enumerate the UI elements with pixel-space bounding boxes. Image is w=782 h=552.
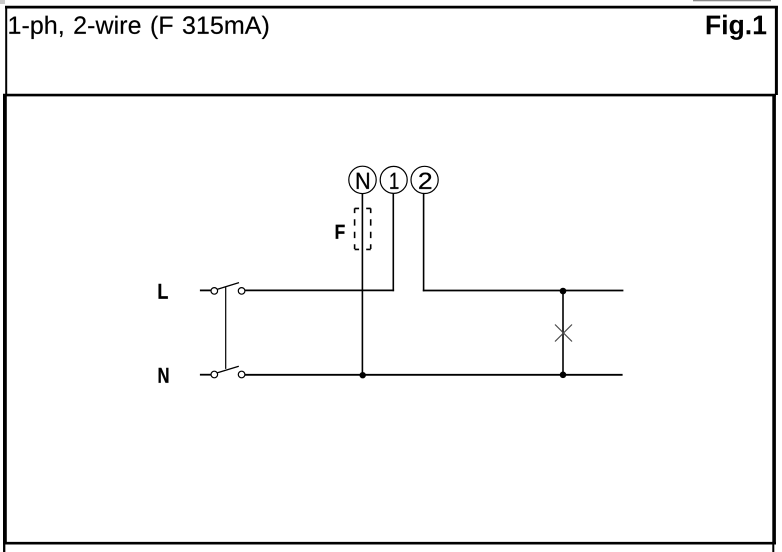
junction dot lamp top [560, 288, 567, 295]
node label N [159, 368, 169, 383]
switch S pole L right contact [238, 288, 245, 295]
terminal 1 [380, 166, 407, 193]
switch S pole N right contact [238, 371, 245, 378]
label F [336, 225, 345, 239]
switch S pole N blade [218, 366, 239, 373]
switch linkage [225, 287, 227, 369]
switch S pole L blade [218, 283, 240, 290]
wire terminal N through fuse to N line [361, 194, 363, 376]
fuse F (dashed box) [355, 208, 371, 249]
terminal 2 [411, 166, 438, 193]
wire terminal 2 to lamp line [423, 193, 425, 291]
wire N line [245, 374, 623, 376]
wire L stub [200, 289, 211, 291]
junction dot lamp bottom [560, 372, 567, 379]
wire lamp branch [562, 291, 564, 375]
figure label Fig.1 [707, 15, 767, 40]
junction dot on N line [360, 372, 366, 378]
title label [9, 16, 268, 39]
lamp X [555, 325, 572, 342]
terminal N [349, 166, 376, 193]
wire L to terminal 1 [245, 289, 394, 291]
switch S pole L left contact [211, 288, 218, 295]
switch S pole N left contact [211, 371, 218, 378]
node label L [159, 284, 168, 299]
wire N stub [200, 374, 211, 376]
